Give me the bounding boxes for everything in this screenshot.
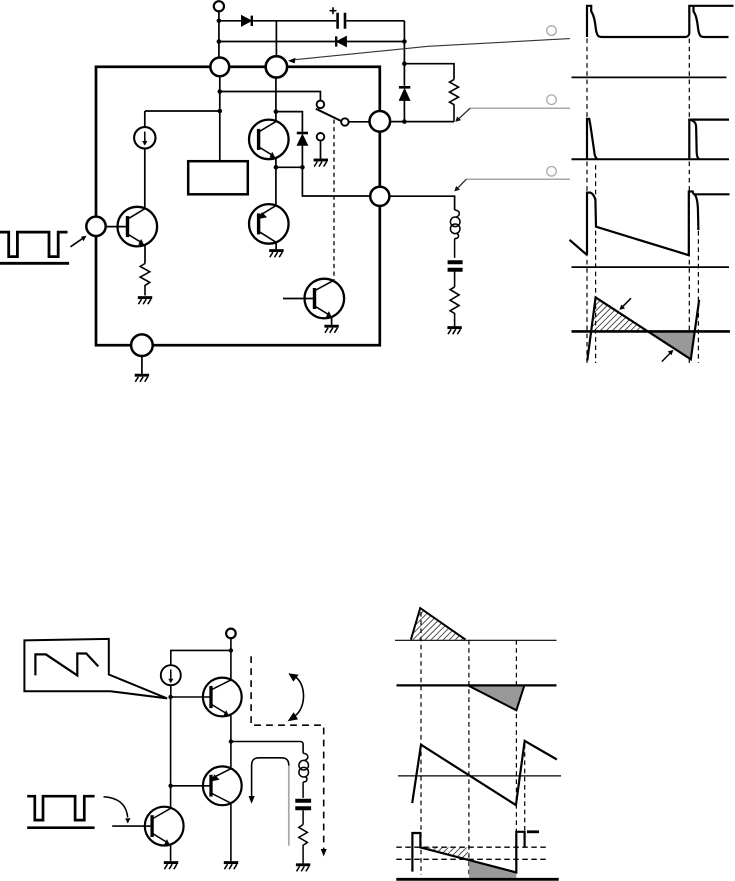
baseline D <box>396 878 558 881</box>
wire Qin collector <box>144 207 146 209</box>
wire Q2 emitter <box>275 167 277 206</box>
arrowhead dashed path <box>321 849 327 857</box>
pin 3 circle <box>370 111 391 132</box>
terminal T2 <box>317 133 325 141</box>
dashed timeline 2 <box>688 39 690 364</box>
node H <box>274 109 279 114</box>
wire Vcc vertical <box>218 11 220 58</box>
pin 4 input circle <box>86 217 105 236</box>
dashed timeline D <box>524 744 526 831</box>
pointer line to waveform2 <box>455 108 570 122</box>
callout balloon <box>24 639 167 699</box>
wire emitter to diode <box>276 166 303 168</box>
capacitor C1 <box>330 7 345 29</box>
ground G9 <box>296 865 310 872</box>
transistor Qc <box>112 807 183 846</box>
waveform trace 3 <box>570 192 730 256</box>
curved arrow input 2 <box>104 797 131 824</box>
dashed timeline 1b <box>595 165 597 363</box>
triangle B outline <box>469 686 524 711</box>
arrow to gray area <box>662 350 674 362</box>
pointer line to waveform3 <box>454 179 570 191</box>
dashed level 1 <box>396 846 546 848</box>
terminal Vcc <box>214 1 224 11</box>
triangle A outline <box>411 608 466 640</box>
node M <box>229 739 233 743</box>
label circle w3 <box>547 167 557 177</box>
wire Qa collector <box>230 651 232 680</box>
current source I2 <box>161 665 181 685</box>
pointer line to waveform1 <box>288 39 570 64</box>
node N <box>168 784 172 788</box>
IC box U1 <box>96 67 380 345</box>
ground G4 <box>324 326 338 333</box>
baseline B <box>397 684 557 686</box>
wire emitter to yoke <box>231 742 303 754</box>
wire diode D4 top <box>276 112 303 132</box>
wire Qb base <box>171 785 211 787</box>
node F <box>218 89 223 94</box>
waveform trace 4 <box>587 297 699 360</box>
wire return-diode line <box>219 41 405 43</box>
ground G3 <box>269 251 283 258</box>
input waveform glyph <box>0 232 69 263</box>
level mark <box>527 830 539 833</box>
pin 6 circle <box>210 58 229 77</box>
node A <box>217 19 222 24</box>
dashed timeline A <box>420 612 422 875</box>
current source I1 <box>134 111 155 207</box>
wire current source to rail <box>145 110 220 112</box>
node G <box>218 109 223 114</box>
inductor L1 <box>450 210 460 258</box>
pin 8 circle <box>370 187 389 206</box>
wire node L down <box>170 697 172 786</box>
node D <box>402 61 407 66</box>
node K <box>229 648 233 652</box>
wire to switch <box>220 92 321 101</box>
node L <box>168 695 172 699</box>
wire T3 down <box>230 638 232 650</box>
label circle w2 <box>547 95 557 105</box>
wire Qc emitter to ground <box>170 845 172 862</box>
node E <box>402 119 407 124</box>
block driver <box>188 161 248 194</box>
resistor R5 <box>299 825 308 864</box>
ground G2 <box>314 160 328 167</box>
arrow input <box>71 236 87 247</box>
wire to current source <box>171 650 231 665</box>
diode D4 <box>297 133 308 167</box>
transistor Q1 <box>249 120 289 160</box>
capacitor C3 <box>295 801 311 825</box>
wire Q1 emitter <box>275 158 277 167</box>
wire Qa emitter <box>230 716 232 742</box>
transistor Qin <box>106 207 157 247</box>
gray area D <box>469 861 516 878</box>
node B <box>217 39 222 44</box>
baseline 4 <box>572 330 731 333</box>
wire to pin4 <box>302 167 369 196</box>
waveform trace C <box>412 741 557 805</box>
wire dashed mute <box>333 120 335 281</box>
resistor R4 <box>140 264 150 296</box>
dashed timeline C <box>515 640 517 872</box>
waveform trace D <box>412 832 524 873</box>
wire Q2 collector to ground <box>275 242 277 249</box>
transistor Q3 <box>283 279 344 319</box>
wire Qc collector <box>170 786 172 809</box>
wire resistor top branch <box>404 64 454 80</box>
dashed level 2 <box>396 858 546 860</box>
wire right rail <box>403 21 405 122</box>
gray area S2 <box>648 331 695 359</box>
arrow to hatched area <box>619 298 631 310</box>
wire pin8 to LCR <box>390 196 455 210</box>
wire Qa base <box>171 696 211 698</box>
pin 2 circle <box>266 56 287 77</box>
ground G1 <box>135 375 149 382</box>
wire pin3 out <box>390 121 454 123</box>
baseline C <box>398 775 561 777</box>
transistor Q2 <box>249 204 289 244</box>
diode D2 <box>336 36 346 46</box>
ground G6 <box>447 328 461 335</box>
diode D3 <box>399 87 410 100</box>
resistor R2 <box>450 287 459 326</box>
hatched area D <box>420 847 468 859</box>
transistor Qa <box>203 678 242 717</box>
dashed timeline 2b <box>697 231 699 363</box>
input waveform glyph 2 <box>27 796 94 828</box>
wire pin1 vertical <box>219 77 221 162</box>
wire pin5 down <box>141 356 143 374</box>
node J <box>300 165 305 170</box>
pin 5 gnd circle <box>131 334 153 356</box>
switch S1 <box>316 101 370 126</box>
wire Qin emitter <box>144 245 146 263</box>
wire T2 down <box>320 140 322 158</box>
yoke current arrow <box>249 758 289 846</box>
ground G8 <box>164 863 178 870</box>
node C <box>402 39 407 44</box>
diode D1 <box>242 16 252 26</box>
ground G5 <box>138 298 152 305</box>
capacitor C2 <box>448 262 463 287</box>
gray area B <box>469 686 524 710</box>
label circle w1 <box>547 26 557 36</box>
baseline 1 <box>572 76 727 78</box>
baseline A <box>395 639 557 641</box>
wire Q1 collector <box>275 77 277 122</box>
dashed timeline B <box>468 640 470 875</box>
curved double arrow <box>288 673 304 721</box>
dashed feedback path <box>251 656 324 850</box>
terminal T3 <box>226 629 236 639</box>
hatched area S1 <box>591 297 648 331</box>
ground G7 <box>224 863 238 870</box>
wire Qb collector to ground <box>230 803 232 861</box>
sawtooth glyph <box>35 654 98 676</box>
inductor L2 <box>299 753 309 798</box>
wire pin2 to top rail <box>275 21 277 58</box>
baseline 3 <box>572 266 730 268</box>
dashed timeline 1 <box>586 39 588 364</box>
resistor R1 <box>450 80 459 122</box>
waveform trace 2 <box>587 119 729 160</box>
wire pump-cap line <box>219 20 405 22</box>
baseline 2 <box>572 158 730 160</box>
node I <box>274 165 279 170</box>
wire current source down <box>170 685 172 697</box>
transistor Qb <box>203 766 242 805</box>
hatched area A <box>411 608 466 640</box>
waveform trace 1 <box>587 6 734 37</box>
wire node M down <box>230 742 232 768</box>
wire Q3 emitter to ground <box>331 317 333 325</box>
